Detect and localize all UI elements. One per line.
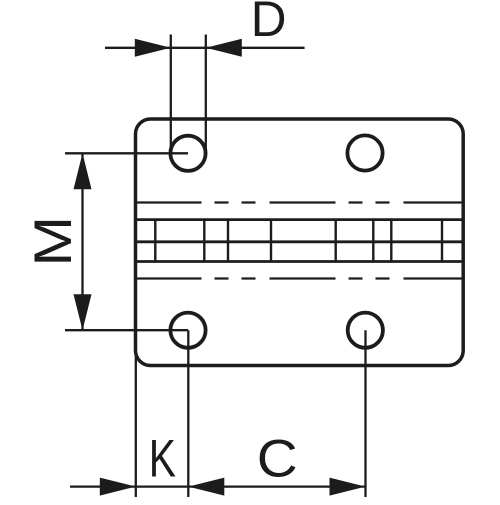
dimension K arrow line outside left: [70, 478, 136, 496]
dimension C line with arrows: [188, 478, 365, 496]
svg-text:C: C: [257, 428, 298, 488]
dimension M extension line top: [65, 152, 188, 154]
hole top-right: [347, 135, 382, 170]
centerline lower (dash-dot): [136, 277, 464, 279]
svg-text:M: M: [23, 216, 82, 267]
svg-text:D: D: [251, 0, 287, 47]
dimension M line with arrows: [74, 153, 92, 330]
svg-text:K: K: [149, 430, 176, 489]
hole top-left: [170, 136, 205, 171]
centerline upper (dash-dot): [136, 201, 464, 203]
hole bottom-right: [348, 313, 383, 348]
dimension D line left with arrow: [105, 39, 206, 57]
dimension C extension line (hole centre): [364, 330, 366, 497]
dimension K-C connecting line: [136, 485, 189, 487]
dimension M extension line bottom: [65, 329, 188, 331]
plate outline: [136, 119, 464, 366]
serration ticks: [155, 220, 442, 262]
dimension K extension line (hole centre): [187, 330, 189, 497]
dimension D extension line left: [170, 35, 172, 153]
serration band middle line: [134, 240, 464, 243]
serration band top line: [134, 218, 464, 221]
serration band bottom line: [134, 260, 464, 263]
dimension D extension line right: [205, 35, 207, 153]
dimension K extension line (plate edge): [135, 344, 137, 497]
hole bottom-left: [170, 313, 205, 348]
dimension D line right with arrow: [206, 39, 305, 57]
